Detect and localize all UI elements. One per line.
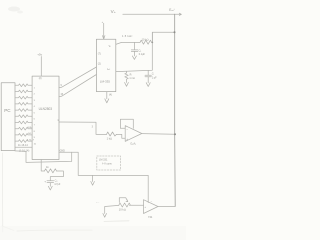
svg-text:10: 10 [34, 143, 37, 145]
svg-text:10 kΩ: 10 kΩ [119, 208, 126, 212]
ladder resistor row 10 [15, 140, 32, 143]
pot wiper arm [119, 198, 128, 203]
PC box [1, 83, 15, 151]
junction on R13 row [152, 42, 154, 44]
resistor RL tap [125, 71, 128, 82]
svg-text:4.7μF: 4.7μF [54, 183, 61, 186]
resistor ladder R1-R10 (PC to ULN2803) [15, 84, 37, 147]
resistor R12 1k [44, 169, 56, 173]
svg-text:–: – [126, 127, 128, 131]
ground G5 [146, 83, 150, 87]
ground G2 [48, 186, 52, 190]
svg-text:(2): (2) [39, 78, 42, 80]
wire R12 to C3 [50, 171, 63, 181]
svg-text:11·16·14: 11·16·14 [18, 144, 28, 147]
svg-text:(4): (4) [109, 94, 112, 97]
ladder resistor row 7 [15, 121, 32, 124]
wire U2 Iout pin row [116, 32, 153, 71]
svg-text:+: + [44, 179, 46, 183]
op-amp A2 [144, 200, 159, 214]
V+ feed wire with arrow [103, 23, 105, 39]
wire PC ground return [15, 151, 72, 163]
svg-text:1 μF: 1 μF [152, 76, 157, 79]
svg-text:1 mΩ: 1 mΩ [129, 77, 135, 80]
svg-text:2: 2 [34, 94, 36, 96]
IC U1 ULN2803 box [32, 76, 59, 159]
svg-text:4.7k.17: 4.7k.17 [27, 139, 35, 141]
svg-text:10 kΩ: 10 kΩ [142, 37, 149, 41]
svg-text:+5v: +5v [37, 52, 42, 56]
svg-text:5: 5 [34, 112, 36, 114]
ladder resistor row 2 [15, 90, 32, 93]
paper shading [0, 226, 186, 240]
ladder resistor row 4 [15, 103, 32, 106]
wire chip output to op-amp A1 [59, 122, 107, 134]
svg-text:(2): (2) [98, 63, 101, 66]
ground G4 [125, 83, 129, 87]
svg-text:3: 3 [92, 127, 94, 129]
wire R11 to op-amp A1 + input [116, 134, 125, 138]
wire chip pin15 diagonal to U2 [59, 75, 96, 97]
svg-text:(1·16·14): (1·16·14) [19, 150, 29, 153]
wire chip pin9 diagonal to U2 [59, 67, 96, 88]
svg-text:LM-335: LM-335 [100, 80, 111, 84]
capacitor C3 4.7uF [47, 181, 54, 187]
wire R13 to node [152, 32, 175, 42]
svg-text:Vᵣ: Vᵣ [109, 45, 112, 48]
svg-text:OₚA₁: OₚA₁ [130, 142, 136, 146]
ladder resistor row 9 [15, 134, 32, 137]
U2 bottom pin [106, 92, 108, 99]
svg-text:741: 741 [148, 215, 153, 219]
svg-text:0.1μF: 0.1μF [139, 53, 146, 56]
scan artifact left edge [1, 153, 3, 232]
svg-text:4: 4 [34, 106, 36, 108]
minus input wire [120, 127, 125, 129]
capacitor CL tap [145, 70, 151, 82]
svg-text:1: 1 [34, 88, 36, 90]
ground G6 [105, 99, 109, 103]
potentiometer R14 10k [119, 203, 131, 207]
rail wire right side [174, 14, 177, 206]
svg-text:f–V conv: f–V conv [102, 162, 112, 165]
ground G1 tap on bus [91, 175, 95, 185]
junction dot [174, 133, 176, 135]
wire GND pin to ground bus [59, 152, 148, 202]
svg-text:V₊: V₊ [111, 9, 117, 14]
ladder resistor row 3 [15, 96, 32, 99]
ladder resistor row 6 [15, 115, 32, 118]
resistor R13 10k [140, 40, 152, 44]
svg-text:1k: 1k [46, 166, 49, 169]
+5V supply wire [40, 57, 42, 77]
svg-text:+: + [102, 21, 104, 24]
wire pot to A2 + input [129, 204, 143, 206]
scan smudge bottom-right [104, 220, 129, 223]
scan smudge bottom-left diagonal [2, 226, 14, 231]
svg-text:ULN2803: ULN2803 [39, 107, 53, 111]
scan smudge bottom [17, 229, 92, 232]
svg-text:−·¯: −·¯ [96, 201, 100, 204]
ladder resistor row 8 [15, 127, 32, 130]
svg-text:7: 7 [34, 125, 36, 127]
svg-text:+: + [144, 206, 146, 209]
capacitor C1 0.1uF tap [131, 42, 138, 56]
wire U2 Vout pin to R13 row [116, 42, 140, 44]
wire ground to pot [105, 205, 119, 213]
Eout arrow [175, 13, 182, 15]
svg-text:8: 8 [34, 131, 36, 133]
svg-text:PC: PC [4, 108, 11, 113]
svg-text:(7): (7) [98, 53, 101, 56]
svg-text:LM 331: LM 331 [99, 158, 108, 161]
ladder resistor row 5 [15, 109, 32, 112]
junction node dot [174, 31, 176, 33]
sensor U2 LM-335 box [96, 39, 115, 91]
output wire A1 [142, 133, 175, 136]
feedback wire A1 [120, 119, 133, 128]
output wire A2 [158, 206, 175, 208]
ground G3 [132, 56, 136, 60]
ladder resistor row 1 [15, 84, 32, 87]
svg-text:1.5 kΩ²: 1.5 kΩ² [122, 34, 133, 38]
wire chip pin to R12 [41, 160, 44, 172]
resistor R11 1k [107, 132, 117, 136]
wire V+ rail to Eout [123, 13, 175, 15]
svg-text:Cₗ: Cₗ [152, 73, 155, 76]
svg-text:–: – [151, 201, 153, 204]
ground G7 [103, 214, 107, 218]
op-amp A1 [125, 126, 142, 142]
scan smudge top-left [8, 7, 23, 14]
svg-text:Iₒᵤᵗ: Iₒᵤᵗ [107, 67, 111, 71]
dashed box chart recorder [97, 156, 121, 170]
svg-text:3: 3 [34, 100, 36, 102]
svg-text:1 kΩ: 1 kΩ [107, 136, 112, 140]
svg-text:6: 6 [34, 119, 36, 121]
ladder bottom row wire [15, 146, 32, 148]
svg-text:+: + [126, 137, 128, 141]
svg-text:Eₒᵤᵗ: Eₒᵤᵗ [169, 8, 175, 12]
